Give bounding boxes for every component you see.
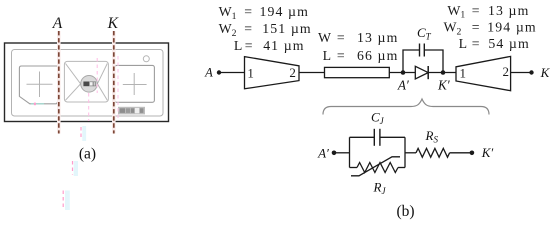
wire A' to box (334, 152, 350, 154)
parallel box right side (404, 137, 406, 167)
svg-text:=: = (337, 48, 345, 63)
svg-text:13 µm: 13 µm (357, 30, 398, 45)
svg-text:L: L (323, 48, 331, 63)
port 2 label taper U2 (502, 64, 509, 79)
svg-text:=: = (244, 4, 252, 19)
node A' dot (401, 70, 406, 75)
svg-text:=: = (472, 20, 480, 35)
label K (107, 15, 119, 32)
chip inner outline (12, 50, 164, 117)
pink stub bottom left (63, 191, 70, 211)
svg-text:A′: A′ (317, 146, 329, 161)
node A' dot (equiv) (332, 151, 337, 156)
capacitor CT branch right (424, 50, 443, 73)
top branch wires (350, 136, 406, 138)
parallel box left side (349, 137, 351, 167)
svg-text:A: A (204, 66, 213, 80)
svg-text:=: = (472, 36, 480, 51)
label CJ (371, 110, 385, 127)
svg-text:K: K (540, 65, 550, 80)
center cell outline (64, 61, 108, 102)
label bar (118, 107, 145, 115)
pink stub below box 2 (73, 161, 79, 176)
transmission line TL1 (325, 67, 390, 77)
line values (318, 30, 398, 63)
alignment circle (143, 56, 149, 62)
capacitor CJ plates (374, 129, 380, 146)
resistor RJ zigzag (357, 163, 398, 173)
right taper triangle (97, 64, 107, 101)
svg-text:=: = (472, 3, 480, 18)
node label K' (equiv) (481, 145, 494, 160)
resistor RS zigzag (416, 148, 450, 157)
svg-text:2: 2 (502, 64, 509, 79)
bottom branch wire left (350, 167, 358, 169)
section line K (113, 31, 115, 134)
port 1 label taper U2 (460, 65, 467, 80)
diode D1 (415, 66, 428, 79)
left taper triangle (66, 64, 81, 101)
caption (b) (396, 203, 414, 220)
port 2 label taper U1 (289, 65, 296, 80)
wire A to taper1 (219, 72, 245, 74)
svg-text:194 µm: 194 µm (260, 4, 309, 19)
svg-text:K: K (107, 15, 119, 32)
svg-text:=: = (245, 38, 253, 53)
wire diode to K' (428, 72, 456, 74)
svg-text:(b): (b) (396, 203, 414, 220)
node label K' (437, 78, 451, 93)
svg-text:151 µm: 151 µm (262, 21, 311, 36)
RJ variable arrow (351, 157, 400, 176)
svg-text:L: L (234, 38, 242, 53)
svg-text:1: 1 (247, 65, 254, 80)
svg-text:41 µm: 41 µm (263, 38, 304, 53)
svg-text:A: A (52, 15, 63, 32)
svg-text:1: 1 (460, 65, 467, 80)
anode contact bar (83, 82, 89, 87)
svg-text:L: L (459, 36, 467, 51)
svg-text:13 µm: 13 µm (488, 3, 529, 18)
section line A (58, 31, 60, 134)
terminal label A (204, 66, 213, 80)
section line A halo (57, 31, 61, 134)
svg-text:K′: K′ (481, 145, 494, 160)
wire taper2 to K (511, 72, 532, 74)
label RJ (373, 179, 387, 196)
taper U2 (456, 56, 511, 90)
left pad crosshair (27, 72, 53, 98)
section line K halo (112, 31, 116, 134)
brace (323, 99, 489, 115)
svg-text:A′: A′ (397, 78, 410, 93)
port 1 label taper U1 (247, 65, 254, 80)
node label A' (397, 78, 410, 93)
svg-text:2: 2 (289, 65, 296, 80)
pink stub below box 1 (81, 126, 86, 141)
svg-text:66 µm: 66 µm (357, 48, 398, 63)
wire TL to node A' (389, 72, 415, 74)
chip outer border (5, 43, 169, 122)
svg-text:(a): (a) (79, 146, 96, 163)
node K' dot (441, 70, 446, 75)
bottom branch wire right (398, 167, 405, 169)
cathode contact slots (90, 82, 96, 86)
taper U1 (245, 57, 300, 89)
wire taper1 to TL (299, 72, 325, 74)
left taper values (219, 4, 312, 53)
right pad (115, 65, 155, 102)
terminal A dot (217, 70, 221, 74)
caption (a) (79, 146, 96, 163)
capacitor CT plates (420, 44, 425, 57)
label RS (425, 128, 439, 145)
left pad (19, 66, 59, 104)
wire RS to K' (450, 152, 472, 154)
label A (52, 15, 63, 32)
terminal label K (540, 65, 550, 80)
svg-text:54 µm: 54 µm (488, 36, 529, 51)
label CT (417, 25, 432, 42)
teal artifact on pad edge (31, 103, 44, 106)
svg-text:K′: K′ (437, 78, 451, 93)
svg-text:=: = (244, 21, 252, 36)
pink cut line center upper (96, 58, 98, 93)
right pad crosshair (123, 73, 147, 95)
node label A' (equiv) (317, 146, 329, 161)
svg-text:194 µm: 194 µm (487, 20, 536, 35)
pink cut line right (117, 56, 119, 121)
node K' dot (equiv) (470, 151, 475, 156)
wire box to RS (405, 152, 416, 154)
pink cut line center lower (88, 93, 90, 121)
svg-text:W: W (318, 30, 331, 45)
terminal K dot (529, 70, 533, 74)
diode mesa circle (81, 76, 98, 93)
right taper values (444, 3, 537, 51)
svg-text:=: = (337, 30, 345, 45)
capacitor CT branch left (403, 50, 420, 73)
